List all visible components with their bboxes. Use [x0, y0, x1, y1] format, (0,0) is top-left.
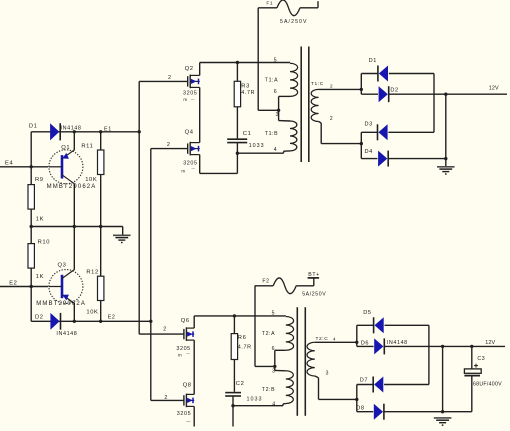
- svg-text:4: 4: [274, 147, 278, 153]
- svg-text:1033: 1033: [247, 396, 263, 402]
- svg-text:12V: 12V: [489, 85, 499, 91]
- svg-text:D4: D4: [365, 149, 373, 155]
- svg-text:3: 3: [276, 112, 280, 118]
- svg-text:D5: D5: [363, 310, 371, 316]
- svg-text:2: 2: [330, 84, 333, 89]
- svg-text:C2: C2: [236, 381, 245, 387]
- svg-text:3: 3: [326, 370, 329, 376]
- svg-text:F2: F2: [262, 278, 269, 284]
- svg-text:T2:A: T2:A: [262, 331, 275, 337]
- svg-text:IN4148: IN4148: [56, 331, 77, 337]
- svg-text:R12: R12: [86, 270, 98, 276]
- svg-text:2: 2: [167, 142, 171, 148]
- svg-text:IN4148: IN4148: [387, 340, 408, 346]
- svg-text:MMBT29062A: MMBT29062A: [36, 301, 86, 307]
- svg-text:5A/250V: 5A/250V: [302, 292, 326, 298]
- svg-text:T2:B: T2:B: [262, 387, 275, 393]
- svg-text:T2:C: T2:C: [316, 336, 329, 342]
- svg-text:D3: D3: [365, 122, 373, 128]
- svg-text:Q1: Q1: [61, 145, 70, 151]
- svg-text:D2: D2: [35, 314, 44, 320]
- svg-text:2: 2: [330, 116, 333, 122]
- svg-text:—: —: [186, 351, 190, 355]
- svg-text:2: 2: [168, 75, 172, 81]
- svg-text:4.7R: 4.7R: [238, 345, 252, 351]
- svg-text:D2: D2: [390, 87, 398, 93]
- svg-text:m: m: [181, 169, 185, 174]
- svg-text:R6: R6: [238, 335, 247, 341]
- svg-text:R10: R10: [38, 239, 50, 245]
- svg-text:D1: D1: [369, 58, 377, 64]
- svg-text:68UF/400V: 68UF/400V: [473, 381, 502, 387]
- svg-text:F1: F1: [266, 1, 273, 7]
- svg-text:3: 3: [272, 369, 276, 375]
- svg-text:Q4: Q4: [185, 129, 194, 135]
- svg-text:D6: D6: [361, 341, 369, 347]
- svg-text:E1: E1: [104, 127, 112, 133]
- svg-text:m: m: [183, 97, 187, 102]
- svg-text:D8: D8: [356, 406, 364, 412]
- svg-text:T1:B: T1:B: [265, 131, 278, 137]
- svg-text:2: 2: [164, 395, 168, 401]
- svg-text:4: 4: [333, 336, 336, 341]
- svg-text:5A/250V: 5A/250V: [280, 19, 308, 25]
- svg-text:—: —: [191, 167, 195, 171]
- svg-text:—: —: [191, 98, 195, 102]
- svg-text:R9: R9: [35, 177, 44, 183]
- svg-text:6: 6: [274, 89, 278, 95]
- svg-text:10K: 10K: [85, 177, 97, 183]
- svg-text:T1:A: T1:A: [265, 78, 278, 84]
- svg-text:R11: R11: [81, 143, 93, 149]
- svg-text:MMBT29062A: MMBT29062A: [47, 184, 97, 190]
- svg-text:C1: C1: [243, 131, 252, 137]
- svg-text:D7: D7: [360, 377, 368, 383]
- svg-text:Q3: Q3: [58, 263, 67, 269]
- svg-text:1K: 1K: [36, 217, 44, 223]
- svg-text:4: 4: [272, 401, 276, 407]
- svg-text:4.7R: 4.7R: [241, 90, 255, 96]
- svg-text:1K: 1K: [36, 274, 44, 280]
- svg-text:5: 5: [274, 58, 278, 64]
- svg-text:E2: E2: [108, 315, 116, 321]
- svg-text:m: m: [178, 352, 182, 357]
- svg-text:12V: 12V: [485, 340, 495, 346]
- svg-text:E4: E4: [5, 161, 13, 167]
- svg-text:T1:C: T1:C: [311, 81, 324, 87]
- svg-text:Q8: Q8: [183, 382, 192, 388]
- svg-text:1033: 1033: [249, 143, 265, 149]
- svg-text:E2: E2: [9, 280, 17, 286]
- svg-text:D1: D1: [29, 123, 38, 129]
- svg-text:3205: 3205: [183, 91, 197, 97]
- svg-text:3205: 3205: [183, 160, 197, 166]
- svg-text:—: —: [186, 418, 191, 423]
- svg-text:Q2: Q2: [185, 66, 194, 72]
- svg-text:R3: R3: [241, 83, 250, 89]
- svg-text:IN4148: IN4148: [61, 126, 82, 132]
- svg-text:2: 2: [163, 326, 167, 332]
- svg-text:10K: 10K: [86, 309, 98, 315]
- svg-text:3205: 3205: [177, 411, 191, 417]
- svg-text:BT+: BT+: [308, 272, 319, 278]
- svg-text:C3: C3: [477, 356, 485, 362]
- svg-text:Q6: Q6: [181, 318, 190, 324]
- svg-text:6: 6: [272, 346, 276, 352]
- svg-text:5: 5: [272, 311, 276, 317]
